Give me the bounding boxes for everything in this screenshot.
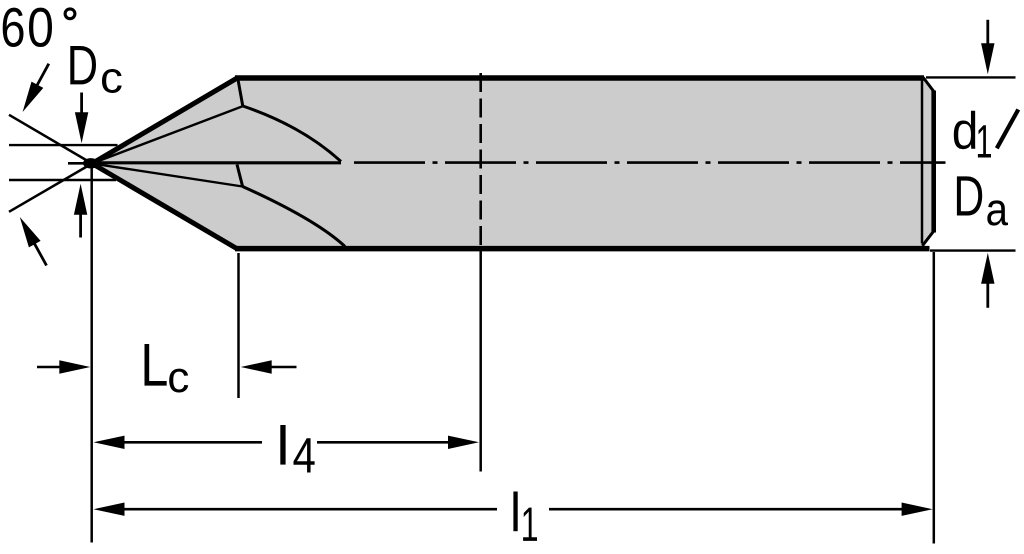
cone edge extension lower-left xyxy=(9,164,92,212)
extension line l4 vertical xyxy=(479,250,482,472)
right end top chamfer xyxy=(923,78,934,93)
degree ring xyxy=(65,9,75,19)
flute end dashed vertical line xyxy=(479,73,482,248)
l1 dimension line right xyxy=(549,508,904,511)
label l4 - l xyxy=(280,425,285,465)
Dc top extent line xyxy=(9,144,118,146)
d1 arrow down xyxy=(986,20,989,45)
tool body fill xyxy=(92,76,934,251)
label Lc - L xyxy=(144,344,166,386)
Lc dimension arrow left xyxy=(37,366,61,369)
label 60deg - digit 6 xyxy=(3,8,24,47)
right end bottom chamfer xyxy=(922,231,934,246)
label d1 - subscript 1 xyxy=(978,125,991,157)
label l4 - subscript 4 xyxy=(294,438,315,472)
label l1 - l xyxy=(513,492,517,532)
Da arrow up xyxy=(986,282,989,308)
extension line right vertical xyxy=(933,252,936,544)
flute curve upper xyxy=(243,106,341,162)
flute curve lower xyxy=(243,187,345,247)
right end edge (thick) xyxy=(931,91,936,233)
extension line top right horizontal xyxy=(926,76,1016,78)
label Dc - subscript c xyxy=(102,69,122,93)
right end inner line xyxy=(921,79,924,244)
Lc dimension arrow right xyxy=(270,366,297,369)
Dc bottom extent line xyxy=(9,179,116,181)
bottom cone edge (thick) xyxy=(92,164,238,250)
cone edge extension upper-left xyxy=(9,115,92,164)
bottom body edge (thick) xyxy=(235,246,930,252)
flute straight lower xyxy=(92,164,243,187)
label Lc - subscript c xyxy=(169,369,188,393)
top cone edge (thick) xyxy=(92,78,238,164)
top body edge (thick) xyxy=(235,75,924,81)
Dc arrow up xyxy=(79,213,82,238)
flute shoulder segment lower xyxy=(237,165,243,187)
tip blob xyxy=(83,158,99,168)
extension line bottom right horizontal xyxy=(930,249,1016,251)
label Da - D xyxy=(957,176,982,215)
slash of d1 xyxy=(997,110,1019,149)
label d1 - d xyxy=(954,111,975,150)
extension line tip vertical xyxy=(90,168,93,543)
l4 dimension line right xyxy=(317,441,450,444)
label Da - subscript a xyxy=(987,200,1008,225)
flute shoulder segment upper xyxy=(238,80,243,107)
leader arrow 60 bottom xyxy=(34,242,47,265)
l1 dimension line left xyxy=(123,508,498,511)
extension line Lc vertical xyxy=(237,253,240,398)
centerline dash-dot xyxy=(354,161,946,164)
label 60deg - digit 0 xyxy=(29,8,52,47)
l4 dimension line left xyxy=(123,441,263,444)
centerline stub left of tip xyxy=(68,162,98,165)
Dc arrow down xyxy=(80,93,83,115)
label l1 - subscript 1 xyxy=(523,508,537,541)
leader arrow 60 top xyxy=(36,64,48,87)
flute straight upper xyxy=(92,106,243,163)
label Dc - D xyxy=(70,46,96,84)
center cutting edge xyxy=(95,161,341,164)
